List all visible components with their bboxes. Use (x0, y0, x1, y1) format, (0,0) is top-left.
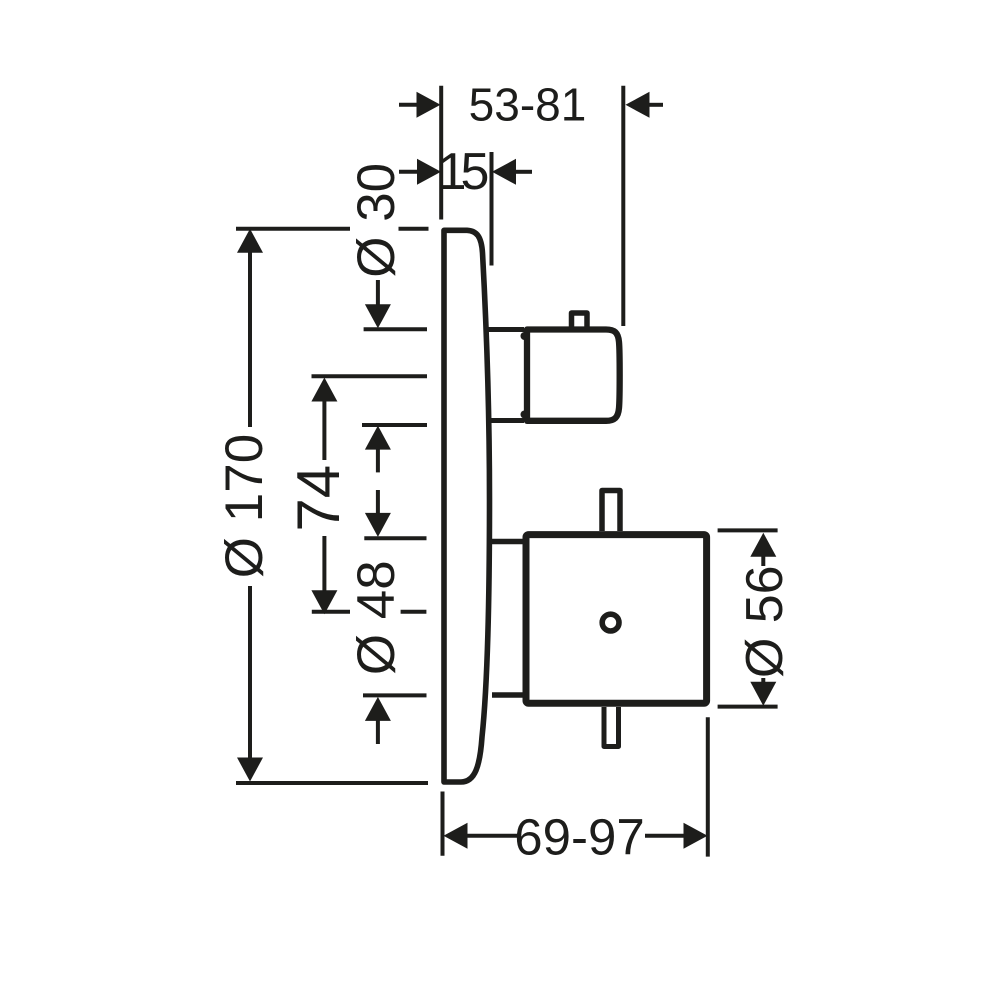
dim dia56 line upper (761, 554, 765, 566)
handle neck bottom silhouette line (488, 418, 524, 423)
svg-text:Ø 170: Ø 170 (215, 434, 274, 578)
valve body square (526, 535, 707, 704)
svg-text:53-81: 53-81 (469, 79, 587, 131)
extension line wall plane top (439, 86, 443, 220)
dim 69-97 right tail (645, 834, 684, 838)
arrow 15 left (417, 159, 441, 185)
handle neck top silhouette line (486, 327, 524, 332)
svg-text:69-97: 69-97 (514, 809, 644, 866)
dim dia170 line upper (248, 250, 252, 427)
arrow dia56 bottom (750, 682, 776, 706)
tick handle axis (312, 374, 428, 378)
tick valve top right (718, 528, 778, 532)
dim 53-81 left tail (399, 103, 418, 107)
dim 15 right tail (516, 170, 532, 174)
arrow dia170 bottom (237, 758, 263, 782)
arrow dia48 up (365, 697, 391, 721)
extension line handle front (621, 86, 625, 326)
sleeve bottom silhouette line (492, 692, 525, 698)
arrow 53-81 left (417, 92, 441, 118)
handle hub dot bottom (521, 411, 529, 419)
arrow dia48 down (365, 513, 391, 537)
thermostat handle body (527, 330, 620, 421)
svg-text:Ø 30: Ø 30 (347, 163, 406, 278)
arrow 15 right (492, 159, 516, 185)
tick neck top (364, 327, 427, 331)
svg-text:15: 15 (438, 143, 488, 201)
tick sleeve bottom (363, 693, 427, 697)
dim dia48 upper arrow tail (376, 490, 380, 514)
extension line plate front (490, 152, 494, 266)
dim 74 line lower (322, 536, 326, 594)
handle safety button (572, 313, 588, 328)
arrow 74 bottom (311, 590, 337, 614)
arrow 53-81 right (626, 92, 650, 118)
arrow dia30 down (365, 304, 391, 328)
arrow dia56 top (750, 533, 776, 557)
dim dia30 upper arrow tail (376, 280, 380, 306)
dim 15 left tail (399, 170, 419, 174)
tick valve bottom right (718, 705, 778, 709)
svg-text:Ø 48: Ø 48 (347, 560, 406, 675)
tick plate top (236, 227, 429, 231)
dim 53-81 right tail (649, 103, 663, 107)
svg-text:Ø 56: Ø 56 (736, 565, 794, 678)
tick plate bottom (236, 781, 428, 785)
sleeve top silhouette line (492, 539, 525, 545)
extension line valve front (706, 717, 710, 856)
handle hub dot top (521, 332, 529, 340)
dim dia48 lower arrow tail (376, 720, 380, 744)
tick neck bottom (362, 423, 427, 427)
dim dia56 line lower (761, 678, 765, 683)
dim 74 line upper (322, 399, 326, 460)
arrow dia30 up (365, 426, 391, 450)
arrow 69-97 right (684, 823, 708, 849)
valve bottom tab (604, 707, 619, 747)
dim dia30 lower arrow tail (376, 448, 380, 472)
tick sleeve top (364, 536, 426, 540)
svg-text:74: 74 (285, 465, 352, 532)
dim 69-97 left tail (467, 834, 518, 838)
valve center screw circle (602, 614, 619, 631)
escutcheon plate side profile (444, 230, 490, 782)
tick valve axis (312, 610, 427, 614)
extension line wall plane bottom (441, 792, 445, 856)
arrow dia170 top (237, 229, 263, 253)
arrow 74 top (311, 378, 337, 402)
arrow 69-97 left (444, 823, 468, 849)
dim dia170 line lower (248, 586, 252, 760)
valve top tab (602, 491, 620, 532)
